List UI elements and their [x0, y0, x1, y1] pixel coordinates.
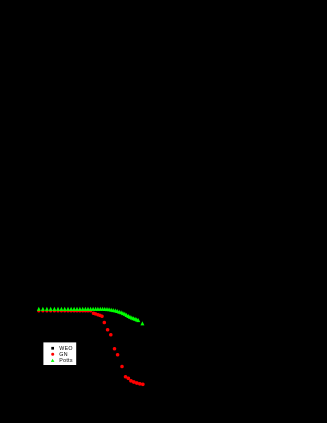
- svg-text:Potts: Potts: [59, 358, 73, 364]
- svg-text:GN: GN: [59, 352, 68, 358]
